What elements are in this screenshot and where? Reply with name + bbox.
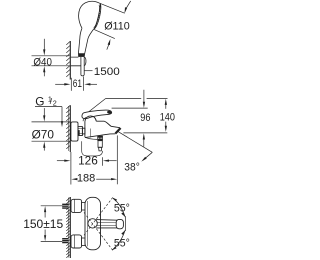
- svg-text:38°: 38°: [124, 162, 140, 174]
- dim O70 top arrow: [43, 108, 45, 116]
- union nut bottom (front view): [82, 238, 86, 246]
- wall extension line (middle view): [70, 152, 72, 185]
- svg-text:G: G: [35, 95, 44, 109]
- dim 150+-15 ticks: [41, 205, 66, 207]
- dim 140: [165, 99, 167, 105]
- svg-text:96: 96: [140, 112, 150, 124]
- wall (top view): [69, 41, 71, 80]
- dim Ø110 arrow upper: [125, 7, 128, 13]
- dim Ø70 tick bottom: [32, 140, 71, 142]
- G1/2 leader line: [61, 107, 63, 122]
- dim 126: [57, 160, 65, 162]
- shower hose: [81, 57, 84, 76]
- dim 96: [143, 90, 145, 103]
- svg-text:140: 140: [160, 111, 175, 123]
- escutcheon top (front view): [71, 199, 82, 212]
- wall (bottom view): [69, 197, 71, 258]
- svg-text:Ø40: Ø40: [33, 56, 52, 68]
- dim Ø40 arrow top: [43, 39, 45, 50]
- union nut (middle view): [78, 127, 82, 136]
- lever pivot hub: [88, 219, 97, 228]
- shower handle right edge: [85, 29, 94, 54]
- G1/2 underline: [35, 106, 62, 108]
- lever extension diagonal: [89, 98, 106, 112]
- swing arc down: [112, 230, 125, 250]
- aerator (middle view): [97, 136, 103, 141]
- faucet body (front view): [85, 197, 101, 250]
- leader 1500: [84, 70, 92, 72]
- 38 degree leader: [143, 152, 152, 160]
- union ring (middle view): [82, 128, 85, 134]
- ref line top (140): [106, 97, 168, 99]
- dim Ø70 tick top: [32, 121, 71, 123]
- union nut top (front view): [82, 202, 86, 210]
- svg-text:1500: 1500: [94, 66, 120, 78]
- svg-text:150±15: 150±15: [23, 217, 63, 231]
- faucet body (middle view): [84, 121, 86, 137]
- lever tip reference line: [124, 216, 126, 231]
- dim Ø40 tick bottom: [32, 65, 71, 67]
- wall (middle view): [69, 105, 71, 152]
- svg-text:Ø110: Ø110: [104, 20, 130, 32]
- spout mouth (dark): [115, 128, 120, 134]
- mounting bolt top (behind wall): [62, 204, 68, 209]
- escutcheon bottom (front view): [71, 235, 82, 248]
- svg-text:126: 126: [78, 154, 98, 168]
- shower handle left edge: [78, 28, 82, 53]
- dim Ø110 extension line lower: [94, 29, 115, 38]
- shower head back outline: [79, 1, 100, 28]
- svg-text:61: 61: [73, 78, 82, 90]
- dim 188: [71, 178, 77, 180]
- svg-text:188: 188: [77, 173, 95, 185]
- hose loop under body: [82, 141, 103, 156]
- mounting bolt bottom (behind wall): [62, 238, 68, 243]
- svg-text:Ø70: Ø70: [32, 127, 55, 141]
- 38 degree ray: [117, 131, 153, 153]
- shower head rim inner arc: [94, 3, 100, 29]
- dim 61: [55, 83, 64, 85]
- lever swing dashed line up: [84, 196, 114, 235]
- wall hatching (middle view): [66, 106, 70, 149]
- wall bracket for hand shower: [71, 57, 86, 66]
- lever arm (front view): [96, 220, 117, 228]
- dim Ø110 line lower stub: [107, 45, 109, 50]
- svg-text:55°: 55°: [114, 202, 130, 214]
- cartridge dome (middle view): [83, 117, 96, 121]
- spout underside: [85, 134, 115, 138]
- escutcheon (middle view): [71, 122, 78, 141]
- shower head rim hatch: [94, 4, 100, 27]
- swing arc up: [113, 198, 125, 217]
- shower head face inner line: [94, 5, 100, 27]
- ref line outlet: [123, 132, 167, 134]
- dim 150+-15 line & arrows: [44, 206, 46, 212]
- dim Ø40 tick top: [32, 55, 71, 57]
- dim Ø40 arrow bottom: [43, 71, 45, 76]
- dim Ø110 arrow lower: [108, 39, 111, 45]
- wall hatching (bottom view): [66, 198, 70, 258]
- body lower contour: [85, 137, 97, 139]
- svg-text:55°: 55°: [114, 237, 130, 249]
- lever handle (middle view): [82, 110, 112, 119]
- dim Ø110 line upper stub: [126, 1, 131, 9]
- wall hatching (top view): [66, 42, 70, 77]
- dim Ø70 arrow bottom: [43, 142, 45, 148]
- dim Ø110 extension line upper: [100, 3, 124, 13]
- svg-text:2: 2: [53, 98, 57, 107]
- G1/2 leader arrow: [61, 121, 63, 127]
- shower head rim outer arc: [94, 3, 101, 29]
- lever swing dashed line down: [84, 213, 114, 252]
- shower handle grip end (dark): [78, 54, 84, 57]
- ref line lever tip (96): [112, 107, 148, 109]
